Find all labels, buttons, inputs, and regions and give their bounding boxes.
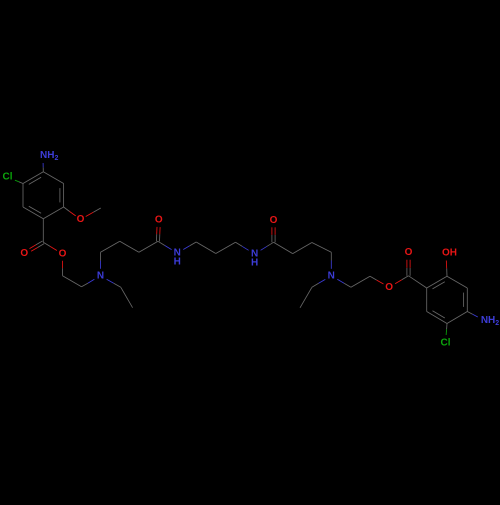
svg-text:Cl: Cl [3,172,13,183]
bond O ether - CH3 methyl [86,212,94,216]
double bond C=O carbonyl right ester [409,268,411,276]
ring B double bond NE-SE [463,293,465,307]
bond ring A C1 - carboxyl C [42,219,44,243]
bond CH2-CH2 chain right c [312,243,331,253]
svg-text:O: O [77,214,85,225]
bond O ester - CH2 [62,261,64,269]
bond ring A C4 - N amine [42,167,44,171]
bond CH2-CH2 ester chain right [351,276,370,287]
ring B double bond bottom-SW [433,311,445,318]
bond O ester - carboxyl C right [395,280,402,284]
bond CH2 - amide C1 [139,241,158,252]
svg-text:O: O [270,215,278,226]
bond ring A C2 - O ether [64,207,70,212]
bond CH2-CH2 chain left b [120,241,139,252]
svg-text:O: O [405,247,413,258]
double bond C=O carbonyl left ester [36,241,43,245]
bond N amide right - C2 [261,246,267,250]
double bond C1=O amide left [159,234,161,241]
bond CH2-CH2 chain left a [101,241,120,252]
ring A double bond A6-A1 [29,206,41,213]
bond N amide - CH2 bridge a [183,246,189,250]
bond N3 - CH2 ester chain right [337,279,344,283]
bond C1 - N amide left [158,241,165,245]
bond CH2-CH3 ethyl right [300,287,312,308]
svg-text:O: O [385,282,393,293]
ring A double bond A4-A5 [29,177,41,184]
bond CH2 - N1 amine [82,283,89,287]
bond CH2-CH2 chain right b [293,243,312,254]
svg-text:N: N [97,270,104,281]
ring A double bond A2-A3 [59,188,61,202]
bond CH2 - N amide right [236,242,243,246]
ring B double bond NW-top [433,282,445,289]
bond N1 - CH2 ethyl [107,279,114,283]
svg-text:O: O [20,248,28,259]
double bond C2=O amide right [274,235,276,243]
bond N1 - CH2 chain [100,261,102,269]
bond CH2-CH2 bridge [196,242,216,254]
bond CH2-CH3 ethyl left [121,287,133,307]
bond N3 - CH2 ethyl right [319,279,326,283]
bond ring B C2 - O hydroxyl [446,268,448,276]
svg-text:H: H [251,258,258,269]
benzene ring A (4-amino-5-chloro-2-methoxyphenyl) [43,207,63,219]
svg-text:O: O [155,215,163,226]
bond ring A C5 - Cl [19,182,23,184]
svg-text:Cl: Cl [441,338,451,349]
bond ring B C4 - N amine right [467,312,472,315]
bond carboxyl C - ring B C1 [409,276,427,288]
bond CH2 - O ester right [370,276,377,280]
svg-text:OH: OH [442,248,457,259]
svg-text:N: N [328,270,335,281]
bond C2 - CH2 chain right a [274,242,293,253]
bond CH2-CH2 bridge b [216,242,236,253]
svg-text:O: O [59,248,67,259]
svg-text:H: H [174,257,181,268]
bond ring B C5 - Cl right [446,324,448,330]
bond CH2-CH2 ester chain left [63,276,82,287]
bond CH2 - N3 amine [330,252,332,260]
bond carboxyl C - O ester left [43,242,50,246]
benzene ring B (4-amino-5-chloro-2-hydroxyphenyl) [427,276,447,288]
